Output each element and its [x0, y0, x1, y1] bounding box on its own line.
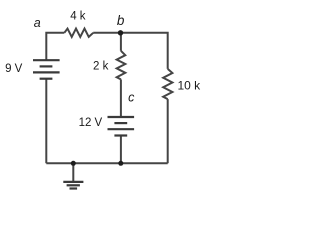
svg-text:12 V: 12 V: [79, 117, 103, 129]
svg-text:b: b: [117, 13, 125, 28]
svg-text:c: c: [128, 91, 135, 105]
svg-text:9 V: 9 V: [5, 63, 23, 75]
svg-text:10 k: 10 k: [177, 79, 201, 93]
svg-text:4 k: 4 k: [70, 10, 86, 22]
svg-text:a: a: [34, 16, 41, 30]
svg-text:2 k: 2 k: [93, 60, 109, 72]
